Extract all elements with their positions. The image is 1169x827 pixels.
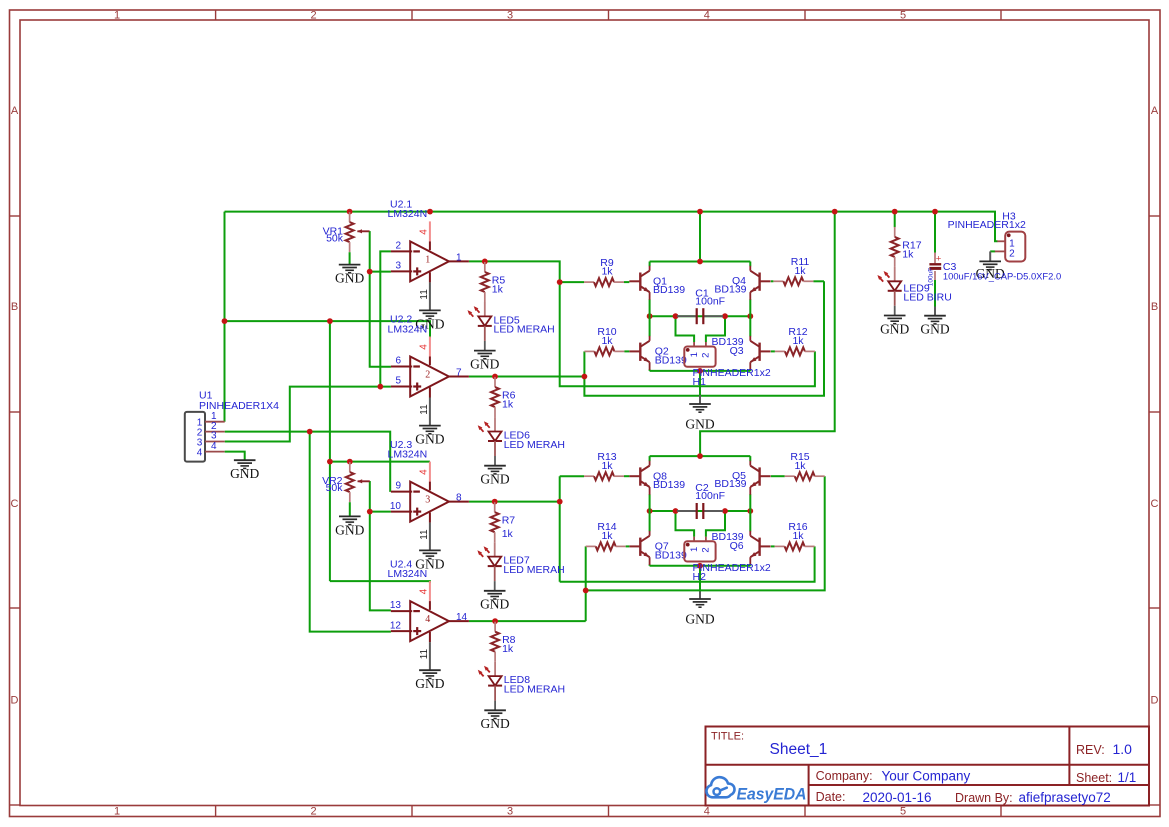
svg-text:Drawn By:: Drawn By: [955,791,1013,805]
label H3 [948,210,1026,231]
label R16 [788,521,807,542]
resistor R9 1k [584,278,629,286]
transistor Q7 BD139 [629,511,649,566]
label Q8 [653,470,685,491]
wire junction at 585.7,590.4 [583,588,589,594]
svg-text:B: B [11,301,18,313]
ground C3 [920,316,949,337]
svg-text:3: 3 [425,495,430,506]
wire junction at 559.7,501.6 [557,499,563,505]
svg-text:2: 2 [310,10,316,22]
svg-text:BD139: BD139 [714,283,746,295]
wire junction at 380.3,386.6 [377,384,383,390]
svg-text:3: 3 [395,261,401,272]
resistor R11 1k [771,277,814,285]
svg-text:afiefprasetyo72: afiefprasetyo72 [1019,790,1111,805]
ground VR2 [335,516,364,537]
svg-text:1k: 1k [902,248,914,260]
svg-text:GND: GND [470,357,499,372]
svg-text:1k: 1k [794,460,806,472]
label R13 [597,451,616,472]
wire VR2 wiper net to U2.3 pin10 and U2.4 pin13 [370,481,391,610]
LED LED9 LED BIRU [877,267,901,315]
svg-text:11: 11 [419,404,430,415]
wire junction at 700,261.5 [697,259,703,265]
svg-text:1k: 1k [502,399,514,411]
svg-text:100nF: 100nF [695,295,725,307]
svg-text:A: A [1151,105,1159,117]
op-amp U2.1 LM324N [388,199,469,311]
svg-text:LED MERAH: LED MERAH [494,324,555,336]
label Q5 [714,470,746,490]
ground bridge2 H2 [685,599,714,627]
wire junction at 329.9,321.1 [327,318,333,324]
svg-text:GND: GND [415,676,444,691]
wire junction at 649.6,511 [647,508,653,514]
wire V+ elbow to U2.4 pin4 [330,581,430,583]
transistor Q6 BD139 [750,511,770,566]
ground H3 [976,261,1005,280]
ground VR1 [335,265,364,286]
svg-text:+: + [936,254,942,265]
svg-text:LED BIRU: LED BIRU [903,292,951,304]
wire node U2.1 pin3 [370,271,391,273]
svg-text:1k: 1k [601,460,613,472]
ground op-amp U2.1 pin11 [415,310,444,331]
svg-text:5: 5 [395,376,401,387]
svg-text:1: 1 [114,10,120,22]
svg-text:4: 4 [704,805,710,817]
svg-text:2: 2 [425,369,430,380]
resistor R7 1k [491,502,499,542]
wire left vertical to U1 pin1 [224,212,226,422]
svg-text:4: 4 [211,441,217,452]
svg-text:LM324N: LM324N [388,323,428,335]
wire junction at 935,211.6 [932,209,938,215]
svg-text:R7: R7 [502,515,516,527]
svg-text:BD139: BD139 [653,479,685,491]
wire junction at 584.4,376.5 [582,374,588,380]
wire loop to R16 [560,546,815,581]
transistor Q2 BD139 [629,316,649,371]
label Q3 [711,336,743,357]
svg-text:Q3: Q3 [730,345,744,357]
ground LED5 [470,351,499,372]
ground op-amp U2.2 pin11 [415,426,444,447]
label VR2 [322,475,343,494]
svg-text:8: 8 [456,493,462,504]
svg-text:1: 1 [425,254,430,265]
svg-text:5: 5 [900,805,906,817]
ground LED8 [480,710,509,731]
svg-text:GND: GND [685,612,714,627]
wire junction at 750.3,511 [747,508,753,514]
svg-text:Your Company: Your Company [882,768,971,783]
svg-text:C: C [1151,498,1159,510]
svg-text:3: 3 [507,805,513,817]
op-amp U2.4 LM324N [388,558,469,670]
wire U2.4 out vertical branch to R14 [585,546,587,621]
wire Q2 Q3 emitter rail [650,370,751,372]
svg-text:3: 3 [507,10,513,22]
svg-text:1k: 1k [794,265,806,277]
svg-text:Q6: Q6 [730,540,744,552]
svg-text:4: 4 [419,469,430,475]
label LED6 [504,430,565,451]
svg-text:1k: 1k [792,335,804,347]
op-amp U2.2 LM324N [388,314,469,426]
label C3 [943,261,1061,281]
wire VR1 wiper net to U2.1 pin3 and U2.2 pin6 [370,231,391,366]
capacitor C1 100nF [677,308,723,324]
wire U2.1 pin2 feedback vertical [380,251,391,386]
svg-text:4: 4 [425,614,430,625]
wire junction at 224.5,321.1 [222,318,228,324]
svg-text:11: 11 [419,289,430,300]
wire VR1 to ground [349,252,351,264]
label LED7 [503,555,564,576]
wire VR1 wiper stub [369,230,371,232]
svg-text:2: 2 [1009,249,1015,260]
svg-text:6: 6 [395,356,401,367]
wire U2.2 output net [469,376,585,378]
wire R11 right stub [813,280,824,282]
wire C3 bottom [934,280,936,307]
resistor R5 1k [481,262,489,302]
ground LED9 [880,316,909,337]
svg-text:1: 1 [114,805,120,817]
resistor R15 1k [771,472,825,480]
resistor R8 1k [491,622,499,662]
wire junction at 750.3,316.2 [747,313,753,319]
svg-text:13: 13 [390,600,402,611]
wire junction at 700,565.8 [697,563,703,569]
transistor Q5 BD139 [750,456,770,511]
connector U1 PINHEADER1X4 [185,389,279,461]
svg-text:1k: 1k [601,266,613,278]
svg-text:2: 2 [701,353,712,358]
capacitor C3 100uF [927,253,941,287]
svg-text:LM324N: LM324N [388,568,428,580]
svg-text:GND: GND [415,432,444,447]
wire junction at 649.6,316.2 [647,313,653,319]
label LED8 [504,674,565,695]
svg-text:1: 1 [456,252,462,263]
wire H3 pin2 to ground [990,250,995,252]
ground LED6 [480,466,509,487]
label VR1 [323,226,344,245]
svg-text:10: 10 [390,501,402,512]
svg-text:BD139: BD139 [655,549,687,561]
svg-text:H2: H2 [693,571,707,583]
svg-text:50k: 50k [326,482,344,494]
ground U1 pin4 [230,460,259,481]
resistor R17 1k [891,227,899,267]
svg-text:GND: GND [335,522,364,537]
svg-text:PINHEADER1X4: PINHEADER1X4 [199,400,279,412]
svg-text:100uF/16V_CAP-D5.0XF2.0: 100uF/16V_CAP-D5.0XF2.0 [943,270,1061,281]
title block [706,727,1150,806]
svg-text:GND: GND [480,597,509,612]
label H2 [693,562,771,583]
wire junction at 675.5,316.2 [673,313,679,319]
label R9 [600,257,614,278]
wire branch to R9 [560,281,584,283]
wire Q1 Q4 collector rail [650,261,751,263]
wire U2.1 output net [469,261,815,386]
resistor R13 1k [584,472,629,480]
wire junction at 495.1,621.1 [492,618,498,624]
svg-text:GND: GND [685,417,714,432]
wire R17 drop [894,212,896,228]
wire Q7 Q6 emitter rail [650,565,751,567]
svg-text:GND: GND [880,321,909,336]
svg-text:BD139: BD139 [714,478,746,490]
svg-text:1k: 1k [502,643,514,655]
wire bus branch to U2.4 pin12 [310,432,391,632]
svg-text:4: 4 [704,10,710,22]
label LED9 [903,282,951,303]
svg-text:2020-01-16: 2020-01-16 [863,790,932,805]
LED LED5 LED MERAH [468,302,492,350]
svg-text:LM324N: LM324N [388,448,428,460]
label H1 [693,367,771,388]
label R5 [492,274,506,295]
svg-text:BD139: BD139 [653,284,685,296]
svg-text:1: 1 [689,352,700,357]
svg-text:GND: GND [480,472,509,487]
wire bridge2 ground drop [699,566,701,590]
svg-text:4: 4 [419,229,430,235]
svg-text:REV:: REV: [1076,743,1105,757]
svg-text:Sheet:: Sheet: [1076,771,1112,785]
svg-text:Company:: Company: [816,769,873,783]
wire junction at 675.5,511 [673,508,679,514]
svg-text:50k: 50k [326,233,344,245]
wire junction at 894.7,211.6 [892,209,898,215]
wire node U2.3 pin10 [370,511,391,513]
label C2 [695,482,725,502]
wire junction at 349.6,211.6 [347,209,353,215]
label R6 [502,390,516,411]
svg-text:12: 12 [390,620,402,631]
wire loop to R15 [586,476,825,590]
LED LED7 LED MERAH [477,542,501,590]
wire junction at 700,211.6 [697,209,703,215]
svg-text:1k: 1k [601,530,613,542]
resistor R14 1k [586,542,630,550]
svg-text:D: D [11,695,19,707]
label Q4 [714,275,746,295]
svg-text:PINHEADER1x2: PINHEADER1x2 [948,219,1026,231]
wire junction at 700,456.1 [697,453,703,459]
svg-text:TITLE:: TITLE: [711,730,744,742]
ground bridge1 H1 [685,404,714,432]
svg-text:D: D [1151,695,1159,707]
wire V+ rail2 to U2.2 pin4 [225,321,431,338]
svg-text:2: 2 [395,240,401,251]
label R7 [502,515,516,540]
svg-text:1: 1 [689,547,700,552]
svg-text:11: 11 [419,648,430,659]
svg-text:B: B [1151,301,1158,313]
label R17 [902,239,921,260]
potentiometer VR1 50k [346,212,370,252]
svg-text:7: 7 [456,368,462,379]
wire U2.3 output net [469,501,560,503]
resistor R16 1k [771,542,815,550]
svg-text:11: 11 [419,529,430,540]
wire V+ top rail [225,212,998,242]
capacitor C2 100nF [677,503,723,519]
svg-text:2: 2 [310,805,316,817]
svg-text:H1: H1 [693,376,707,388]
svg-text:1k: 1k [502,528,514,540]
svg-text:C: C [11,498,19,510]
svg-text:LM324N: LM324N [388,208,428,220]
label R8 [502,634,516,655]
wire junction at 484.8,261.4 [482,259,488,265]
wire junction at 834.7,211.6 [832,209,838,215]
potentiometer VR2 50k [346,462,370,502]
wire R10 drop [583,351,585,376]
connector H3 PINHEADER1x2 [995,232,1026,262]
svg-text:Sheet_1: Sheet_1 [770,741,828,758]
svg-text:GND: GND [230,466,259,481]
svg-text:Date:: Date: [816,790,846,804]
wire junction at 494.7,501.6 [492,499,498,505]
wire C1 middle rail [650,315,751,317]
wire Q8 Q5 collector rail [650,455,751,457]
wire VR2 to ground [349,502,351,516]
svg-text:5: 5 [900,10,906,22]
wire U2.4 output net [469,620,586,622]
transistor Q4 BD139 [750,262,770,317]
svg-text:100uF: 100uF [927,268,934,286]
connector H2 PINHEADER1x2 [684,537,715,562]
svg-text:GND: GND [335,271,364,286]
wire VR2 V+ rail [330,461,430,463]
svg-text:9: 9 [395,481,401,492]
resistor R10 1k [584,347,629,355]
svg-text:LED MERAH: LED MERAH [503,564,564,576]
svg-text:14: 14 [456,612,468,623]
label Q6 [711,531,743,552]
wire junction at 725,511 [722,508,728,514]
svg-text:2: 2 [701,547,712,552]
wire C2 middle rail [650,510,751,512]
wire U1 pin3 to U2.2 pin5 [225,387,391,442]
wire U2.2 out to R11 loop [584,281,824,396]
resistor R12 1k [771,347,815,355]
svg-text:1k: 1k [792,530,804,542]
connector H1 PINHEADER1x2 [684,342,715,367]
label C1 [695,287,725,307]
svg-text:1k: 1k [492,283,504,295]
svg-text:4: 4 [419,344,430,350]
wire junction at 495,376.5 [492,374,498,380]
title block texts [711,730,1136,805]
wire H1 pin1 jog [676,316,695,342]
label R11 [791,256,810,277]
transistor Q1 BD139 [629,262,649,317]
op-amp U2.3 LM324N [388,439,469,551]
wire U1 pin2 bus to U2.3 pin9 [225,432,391,491]
ground LED7 [480,591,509,612]
wire junction at 369.8,511.6 [367,509,373,515]
svg-text:1k: 1k [601,335,613,347]
svg-text:4: 4 [197,447,203,458]
wire H2 pin2 jog [706,511,725,537]
label Q7 [655,540,687,561]
wire C3 top drop [934,212,936,253]
wire V+ right loop to bridge2 [700,212,835,457]
wire V+ branch x330 down [329,321,331,581]
svg-text:EasyEDA: EasyEDA [737,786,807,804]
svg-text:LED MERAH: LED MERAH [504,683,565,695]
label Q1 [653,276,685,297]
label LED5 [494,314,555,335]
wire junction at 559.7,282.1 [557,279,563,285]
resistor R6 1k [491,377,499,417]
wire U1 pin4 to ground [225,452,245,460]
wire junction at 369.7,271.6 [367,269,373,275]
svg-text:1.0: 1.0 [1113,741,1133,757]
wire H1 pin2 jog [706,316,725,342]
label R14 [597,521,616,542]
LED LED6 LED MERAH [478,417,502,465]
svg-text:100nF: 100nF [695,490,725,502]
wire H2 pin1 jog [676,511,695,537]
label Q2 [655,345,687,366]
wire branch to R13 [560,475,584,477]
svg-text:GND: GND [920,322,949,337]
wire junction at 309.7,431.6 [307,429,313,435]
LED LED8 LED MERAH [478,662,502,710]
wire junction at 329.9,461.6 [327,459,333,465]
wire junction at 349.8,461.6 [347,459,353,465]
wire U2.3 out vertical branch [559,476,561,582]
wire V+ drop to bridge1 [699,212,701,262]
label R15 [790,451,809,472]
label R10 [597,326,616,347]
svg-text:GND: GND [480,716,509,731]
svg-text:LED MERAH: LED MERAH [504,439,565,451]
svg-text:1/1: 1/1 [1118,770,1137,785]
EasyEDA logo [706,777,806,803]
wire junction at 700,370.9 [697,368,703,374]
transistor Q3 BD139 [750,316,770,371]
label R12 [788,326,807,347]
ground op-amp U2.3 pin11 [415,550,444,571]
wire junction at 725,316.2 [722,313,728,319]
wire junction at 430,211.6 [427,209,433,215]
transistor Q8 BD139 [629,456,649,511]
svg-text:A: A [11,105,19,117]
svg-text:4: 4 [419,588,430,594]
wire bridge1 ground drop [699,371,701,395]
svg-text:BD139: BD139 [655,354,687,366]
ground op-amp U2.4 pin11 [415,670,444,691]
